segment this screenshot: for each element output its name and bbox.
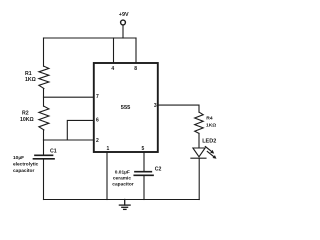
wire R4 to LED2: [198, 133, 200, 147]
label C2 value 0.01µF ceramic capacitor: [112, 170, 133, 188]
svg-text:555: 555: [121, 105, 131, 111]
svg-text:5: 5: [142, 146, 145, 152]
wire left rail to R1: [43, 38, 45, 66]
svg-text:capacitor: capacitor: [13, 168, 34, 174]
resistor R2: [39, 106, 49, 130]
wire pin 6 jog: [67, 120, 94, 140]
svg-text:+9V: +9V: [119, 12, 129, 18]
svg-text:R4: R4: [206, 116, 213, 122]
wire C1 to bottom rail: [43, 159, 45, 200]
wire pin 7: [44, 96, 94, 98]
wire node to C1: [43, 140, 45, 155]
wire R1 to junction: [43, 89, 45, 107]
svg-text:6: 6: [96, 117, 99, 123]
svg-text:10µF: 10µF: [13, 155, 24, 161]
svg-text:capacitor: capacitor: [112, 181, 133, 187]
IC U1 555 timer body: [94, 63, 158, 152]
wire pin 8: [135, 38, 137, 63]
svg-text:R1: R1: [25, 71, 32, 77]
wire bottom rail: [44, 199, 200, 201]
wire top rail: [44, 37, 137, 39]
svg-text:C1: C1: [50, 148, 57, 154]
LED2 light arrows: [205, 147, 216, 159]
svg-text:0.01µF: 0.01µF: [115, 170, 130, 176]
svg-text:1: 1: [107, 146, 110, 152]
wire pin 5 to C2: [143, 152, 145, 171]
svg-text:2: 2: [96, 138, 99, 144]
resistor R1: [39, 66, 49, 88]
wire pin 2: [44, 139, 94, 141]
svg-text:7: 7: [96, 94, 99, 100]
wire LED2 to bottom rail: [198, 158, 200, 199]
capacitor C1: [34, 155, 55, 159]
capacitor C2: [134, 172, 153, 176]
wire C2 to bottom rail: [143, 176, 145, 200]
ground: [119, 200, 130, 210]
wire pin 1 to ground rail: [106, 152, 108, 200]
svg-text:1KΩ: 1KΩ: [25, 77, 36, 83]
resistor R4: [195, 112, 204, 133]
svg-text:4: 4: [111, 66, 114, 72]
svg-text:C2: C2: [155, 166, 162, 172]
svg-text:8: 8: [134, 66, 137, 72]
LED2 diode symbol: [191, 148, 206, 158]
node +9V supply terminal: [121, 20, 126, 38]
svg-text:1KΩ: 1KΩ: [206, 122, 216, 128]
wire pin 4: [113, 38, 115, 63]
svg-text:3: 3: [154, 103, 157, 109]
svg-text:ceramic: ceramic: [113, 175, 131, 181]
svg-text:LED2: LED2: [202, 139, 216, 145]
wire pin 3 to R4: [158, 105, 199, 112]
svg-text:electrolytic: electrolytic: [13, 162, 39, 168]
svg-text:R2: R2: [22, 110, 29, 116]
label C1 value 10µF electrolytic capacitor: [13, 155, 39, 174]
svg-text:10KΩ: 10KΩ: [20, 117, 34, 123]
wire R2 to pin 2 node: [43, 130, 45, 140]
